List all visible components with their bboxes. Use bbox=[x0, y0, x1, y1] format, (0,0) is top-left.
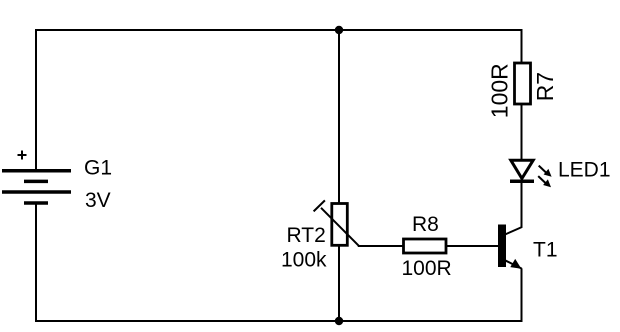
wire bottom rail bbox=[35, 320, 522, 322]
svg-text:R8: R8 bbox=[412, 213, 439, 236]
resistor R8 bbox=[404, 239, 447, 253]
wire R8 to T1 base bbox=[446, 245, 498, 247]
LED1 diode bbox=[510, 160, 552, 187]
wire top rail bbox=[36, 29, 522, 31]
node junction bottom bbox=[335, 317, 343, 325]
node junction top bbox=[335, 26, 343, 34]
resistor R7 bbox=[515, 63, 531, 104]
plus sign bbox=[18, 154, 27, 156]
svg-text:100k: 100k bbox=[281, 249, 327, 272]
light arrow 1 bbox=[539, 166, 552, 177]
svg-text:100R: 100R bbox=[487, 63, 513, 118]
emitter arrowhead bbox=[510, 259, 521, 269]
wiper diagonal bbox=[321, 208, 359, 246]
wire R7 to LED1 bbox=[521, 103, 523, 160]
wire left rail upper bbox=[35, 29, 37, 170]
wire top-right down to R7 bbox=[521, 29, 523, 64]
battery G1 bbox=[2, 151, 71, 204]
long plate 2 bbox=[2, 190, 71, 194]
transistor T1 bbox=[498, 225, 522, 269]
svg-text:R7: R7 bbox=[532, 72, 558, 101]
wire T1 emitter to bottom rail bbox=[521, 268, 523, 322]
T-bar bbox=[314, 200, 325, 211]
short plate 1 bbox=[24, 180, 48, 184]
wire RT2 wiper to R8 bbox=[358, 245, 404, 247]
light arrow 2 bbox=[538, 176, 551, 187]
wire LED1 to T1 collector bbox=[521, 183, 523, 228]
svg-text:LED1: LED1 bbox=[558, 159, 611, 182]
long plate 1 bbox=[2, 169, 71, 173]
emitter lead bbox=[505, 260, 522, 268]
svg-text:3V: 3V bbox=[85, 189, 111, 212]
svg-text:G1: G1 bbox=[84, 157, 112, 180]
svg-text:100R: 100R bbox=[402, 257, 452, 280]
svg-text:RT2: RT2 bbox=[287, 224, 326, 247]
wire middle branch upper bbox=[338, 30, 340, 204]
short plate 2 bbox=[24, 201, 48, 205]
thermistor RT2 bbox=[314, 200, 359, 245]
wire middle branch lower bbox=[338, 246, 340, 321]
wire left rail lower bbox=[35, 203, 37, 322]
collector lead bbox=[505, 227, 522, 235]
base bar bbox=[498, 225, 506, 268]
cathode bar bbox=[510, 179, 534, 183]
svg-text:T1: T1 bbox=[533, 239, 558, 262]
triangle bbox=[511, 160, 533, 178]
